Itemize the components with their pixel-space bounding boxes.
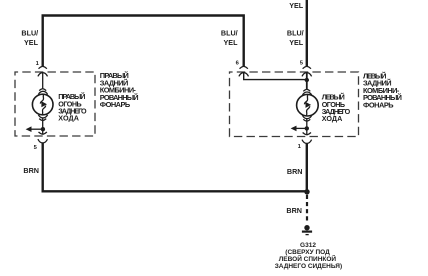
svg-text:ФОНАРЬ: ФОНАРЬ (363, 101, 394, 110)
label: left reverse light (322, 93, 351, 123)
wire: BRN from left lamp down to ground junction (306, 143, 308, 191)
svg-text:BRN: BRN (287, 167, 303, 176)
filament arrow (left bulb) (306, 102, 312, 108)
wire: YEL feed from top to left lamp pin 5 (306, 0, 308, 67)
node: BRN ground junction (304, 189, 309, 194)
svg-text:1: 1 (36, 61, 40, 67)
node: junction below right bulb (41, 127, 45, 131)
svg-text:BRN: BRN (23, 166, 39, 175)
label G312 location (275, 242, 342, 270)
ground G312 (304, 225, 309, 230)
svg-text:ХОДА: ХОДА (322, 114, 343, 123)
svg-text:ФОНАРЬ: ФОНАРЬ (100, 100, 131, 109)
wire: down to left bulb (306, 73, 308, 89)
wire: BRN from right lamp to ground junction (43, 143, 307, 192)
filament arrow (right bulb) (41, 101, 47, 107)
wire: BLU/YEL feed, left lamp pin 1 up and across to right lamp pin 6 (43, 16, 244, 67)
left rear combination lamp box (dashed) (230, 72, 359, 137)
connector at left lamp pin 1 (bottom exit) (302, 128, 312, 143)
right rear combination lamp box (dashed) (15, 72, 95, 136)
node: junction below left bulb (305, 126, 309, 130)
svg-text:(СВЕРХУ ПОД: (СВЕРХУ ПОД (285, 249, 330, 256)
label: right rear combination lamp (100, 71, 139, 109)
svg-text:ЛЕВОЙ СПИНКОЙ: ЛЕВОЙ СПИНКОЙ (279, 254, 337, 263)
svg-text:BLU/: BLU/ (287, 28, 304, 37)
svg-text:5: 5 (34, 145, 38, 151)
connector at left lamp pin 6 (239, 66, 249, 76)
label: left rear combination lamp (363, 71, 402, 109)
svg-text:ЗАДНЕГО СИДЕНЬЯ): ЗАДНЕГО СИДЕНЬЯ) (275, 263, 342, 270)
continuation arrow (right lamp) (30, 128, 43, 130)
connector at right lamp pin 5 (bottom exit) (38, 129, 48, 143)
svg-text:1: 1 (298, 144, 302, 150)
svg-text:YEL: YEL (289, 38, 304, 47)
svg-text:BLU/: BLU/ (221, 28, 238, 37)
label: right reverse light (58, 92, 87, 122)
svg-text:YEL: YEL (24, 38, 39, 47)
lamp: left reverse light bulb (297, 89, 319, 128)
svg-text:5: 5 (300, 61, 304, 67)
wire: internal jumper pin6 to pin5 node (244, 73, 307, 80)
node: pin5/pin6 junction (305, 78, 309, 82)
svg-text:6: 6 (236, 60, 240, 66)
svg-text:BLU/: BLU/ (21, 29, 38, 38)
svg-text:G312: G312 (300, 242, 316, 249)
svg-text:BRN: BRN (286, 206, 302, 215)
connector at left lamp pin 5 (302, 66, 312, 76)
svg-text:YEL: YEL (224, 38, 239, 47)
wire: dashed BRN to ground (306, 195, 308, 222)
svg-text:YEL: YEL (289, 1, 304, 10)
continuation arrow (left lamp) (295, 127, 307, 129)
lamp: right reverse light bulb (32, 89, 53, 130)
svg-text:ХОДА: ХОДА (58, 114, 79, 123)
connector at right lamp pin 1 (terminal fan + mating cap) (38, 66, 48, 89)
